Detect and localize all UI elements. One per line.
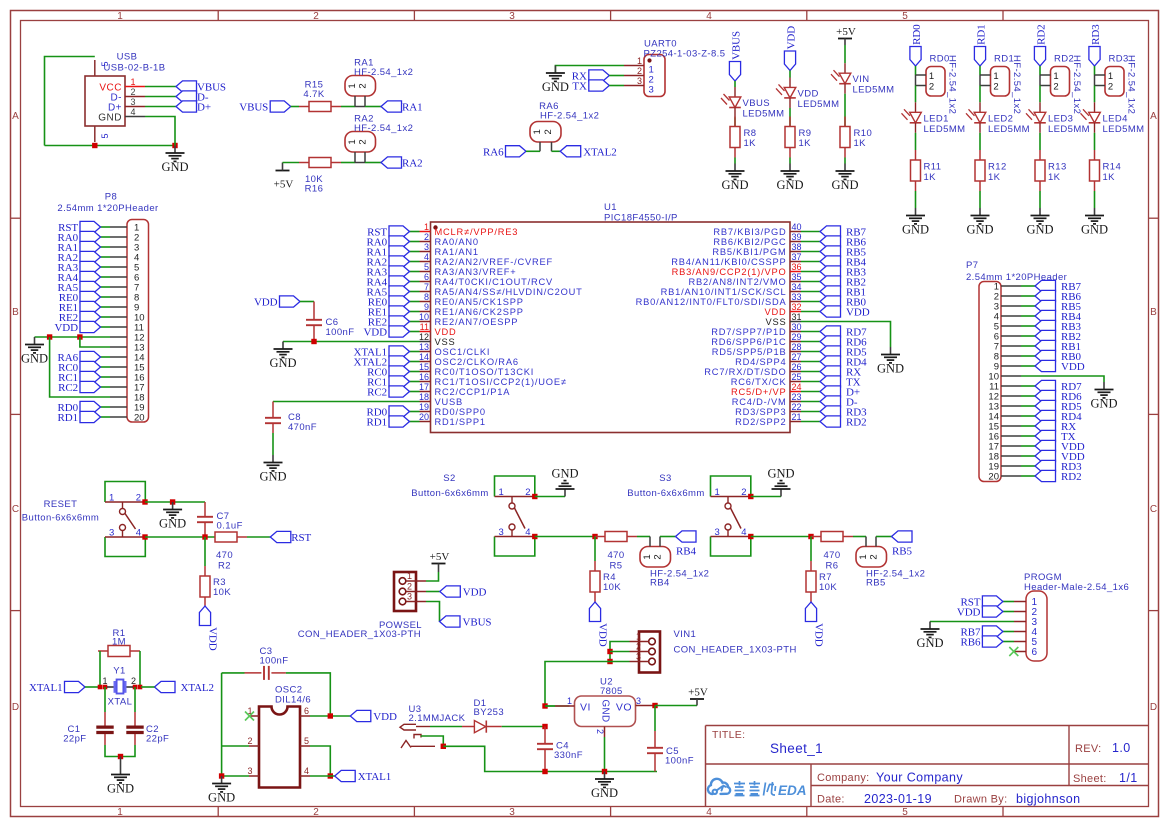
net flag VDD	[805, 602, 824, 647]
U1 right pins	[636, 222, 802, 427]
net flag RD4	[1035, 410, 1082, 423]
net flag RE1	[368, 306, 410, 319]
wire	[101, 246, 111, 248]
svg-text:RD2: RD2	[1035, 24, 1047, 44]
switch S2 Button-6x6x6mm	[495, 476, 535, 556]
svg-text:RA5/AN4/SS≠/HLVDIN/C2OUT: RA5/AN4/SS≠/HLVDIN/C2OUT	[435, 287, 583, 297]
svg-text:RB4: RB4	[676, 546, 696, 558]
resistor R13	[1035, 150, 1045, 191]
svg-text:LED5MM: LED5MM	[1103, 124, 1145, 135]
svg-text:22pF: 22pF	[146, 734, 169, 745]
net flag XTAL1	[335, 770, 391, 783]
svg-text:MCLR≠/VPP/RE3: MCLR≠/VPP/RE3	[435, 227, 519, 237]
wire	[101, 236, 111, 238]
svg-text:D: D	[1150, 702, 1157, 713]
svg-text:39: 39	[792, 232, 802, 242]
connector P8	[127, 220, 149, 423]
ground	[721, 164, 748, 193]
net flag VDD	[1035, 450, 1085, 463]
svg-text:HF-2.54_1x2: HF-2.54_1x2	[1011, 55, 1022, 114]
svg-text:VDD: VDD	[785, 26, 797, 50]
wire	[1003, 601, 1014, 603]
wire	[915, 191, 917, 208]
capacitor C8	[265, 402, 281, 434]
label R2	[216, 550, 233, 572]
svg-text:RB2/AN8/INT2/VMO: RB2/AN8/INT2/VMO	[688, 277, 786, 287]
svg-text:HF-2.54_1x2: HF-2.54_1x2	[947, 55, 958, 114]
svg-text:LED5MM: LED5MM	[1048, 124, 1090, 135]
wire	[410, 291, 420, 293]
svg-text:RA0/AN0: RA0/AN0	[435, 237, 479, 247]
wire	[101, 316, 111, 318]
svg-text:1: 1	[715, 487, 720, 498]
connector UART0	[644, 55, 665, 97]
label RESET	[22, 499, 99, 524]
net flag VDD	[589, 602, 608, 647]
label C7	[217, 511, 243, 532]
wire	[751, 496, 781, 498]
svg-text:2: 2	[407, 582, 412, 592]
svg-text:10: 10	[419, 312, 429, 322]
wire	[844, 94, 846, 127]
resistor R7	[806, 561, 816, 602]
wire	[734, 158, 736, 164]
junction	[98, 685, 103, 690]
wire	[222, 775, 249, 777]
wire	[1021, 465, 1035, 467]
svg-text:2: 2	[993, 82, 998, 93]
svg-text:VUSB: VUSB	[435, 397, 464, 407]
svg-text:LED5MM: LED5MM	[743, 109, 785, 120]
resistor R6	[811, 532, 853, 542]
label VIN LED5MM	[853, 74, 895, 96]
net flag VDD	[254, 296, 300, 309]
svg-text:100nF: 100nF	[665, 756, 694, 767]
resistor R2	[215, 532, 247, 542]
svg-text:GND: GND	[600, 700, 611, 723]
svg-text:1M: 1M	[112, 637, 126, 648]
svg-text:VDD: VDD	[1061, 361, 1085, 373]
header RD3 HF-2.54	[1095, 67, 1125, 97]
label C6	[326, 317, 355, 338]
wire	[654, 706, 656, 732]
wire	[426, 602, 440, 622]
svg-text:RC6/TX/CK: RC6/TX/CK	[731, 377, 787, 387]
junction	[118, 754, 123, 759]
wire	[1021, 376, 1104, 382]
svg-text:3: 3	[407, 592, 412, 602]
svg-text:2: 2	[741, 487, 746, 498]
capacitor C3	[245, 666, 286, 680]
led LED2 LED5MM	[966, 102, 986, 133]
wire	[1094, 191, 1096, 208]
svg-text:20: 20	[419, 412, 429, 422]
svg-text:HF-2.54_1x2: HF-2.54_1x2	[540, 111, 599, 122]
wire	[526, 150, 540, 152]
junction	[142, 534, 147, 539]
resistor R15	[299, 102, 341, 112]
svg-text:14: 14	[419, 352, 429, 362]
net flag RX	[1035, 420, 1076, 433]
net flag RA1	[367, 246, 410, 259]
header RD1 HF-2.54	[980, 67, 1010, 97]
svg-text:37: 37	[792, 252, 802, 262]
svg-text:LED5MM: LED5MM	[924, 124, 966, 135]
wire	[221, 673, 223, 776]
label U2	[600, 677, 623, 698]
svg-text:A: A	[12, 111, 19, 122]
net flag RE2	[368, 316, 410, 329]
svg-text:VBUS: VBUS	[743, 98, 770, 109]
wire	[410, 371, 420, 373]
svg-text:EDA: EDA	[778, 783, 807, 798]
label POWSEL	[298, 620, 422, 640]
svg-text:100nF: 100nF	[326, 327, 355, 338]
connector P7	[979, 282, 1001, 482]
junction	[592, 534, 597, 539]
svg-text:LED1: LED1	[924, 114, 949, 125]
USB pins	[95, 60, 145, 142]
wire	[535, 536, 595, 538]
net flag RD1	[974, 24, 987, 66]
ground	[269, 342, 296, 371]
wire	[915, 133, 917, 150]
svg-text:470: 470	[216, 550, 233, 561]
label S3	[627, 473, 704, 499]
svg-text:VIN1: VIN1	[674, 629, 697, 640]
wire	[104, 687, 106, 712]
wire	[1003, 611, 1014, 613]
svg-text:R14: R14	[1103, 162, 1122, 173]
svg-text:HF-2.54_1x2: HF-2.54_1x2	[354, 123, 413, 134]
svg-text:CON_HEADER_1X03-PTH: CON_HEADER_1X03-PTH	[674, 645, 797, 656]
svg-text:PIC18F4550-I/P: PIC18F4550-I/P	[604, 213, 678, 224]
svg-text:HF-2.54_1x2: HF-2.54_1x2	[354, 67, 413, 78]
net flag RC2	[367, 386, 409, 399]
svg-text:R12: R12	[988, 162, 1007, 173]
resistor R4	[590, 561, 600, 602]
svg-text:1: 1	[347, 139, 358, 144]
net flag RC0	[58, 361, 100, 374]
wire	[283, 341, 420, 343]
svg-text:XTAL2: XTAL2	[181, 682, 214, 694]
svg-text:3: 3	[499, 527, 504, 538]
net flag RC0	[367, 366, 409, 379]
svg-text:3: 3	[715, 527, 720, 538]
capacitor C6	[306, 302, 322, 342]
net flag VDD	[1035, 440, 1085, 453]
net flag RA3	[367, 266, 410, 279]
svg-text:RB7/KBI3/PGD: RB7/KBI3/PGD	[713, 227, 786, 237]
svg-text:10K: 10K	[603, 582, 621, 593]
capacitor C4	[537, 727, 553, 772]
wire	[1021, 415, 1035, 417]
label U3	[409, 704, 466, 724]
wire	[930, 621, 1014, 623]
wire	[545, 705, 555, 707]
svg-text:VSS: VSS	[765, 317, 786, 327]
wire	[101, 326, 111, 328]
net flag RA0	[367, 236, 410, 249]
svg-text:REV:: REV:	[1075, 743, 1101, 755]
wire	[1021, 425, 1035, 427]
net flag RD7	[820, 326, 867, 339]
svg-text:R6: R6	[826, 561, 839, 572]
net flag RX	[572, 70, 610, 83]
junction	[138, 685, 143, 690]
svg-text:XTAL2: XTAL2	[583, 146, 616, 158]
svg-text:VIN: VIN	[853, 74, 870, 85]
net flag RD1	[367, 416, 410, 429]
svg-text:RD1: RD1	[975, 24, 987, 44]
svg-text:RE1/AN6/CK2SPP: RE1/AN6/CK2SPP	[435, 307, 524, 317]
wire	[1003, 641, 1014, 643]
svg-text:RC4/D-/VM: RC4/D-/VM	[732, 397, 787, 407]
junction	[170, 499, 175, 504]
svg-text:GND: GND	[161, 160, 188, 174]
junction	[607, 649, 612, 654]
svg-text:15: 15	[419, 362, 429, 372]
net flag RB5	[820, 246, 866, 259]
net flag RB4	[820, 256, 866, 269]
junction	[542, 769, 547, 774]
svg-text:10K: 10K	[213, 587, 231, 598]
wire	[45, 145, 176, 147]
label R14	[1103, 162, 1122, 184]
wire	[801, 381, 820, 383]
label OSC2	[275, 685, 311, 706]
svg-text:3: 3	[509, 11, 515, 22]
label C1	[63, 724, 86, 745]
ground	[208, 776, 235, 805]
junction	[808, 534, 813, 539]
svg-text:S2: S2	[443, 473, 455, 484]
wire	[410, 351, 420, 353]
net flag XTAL2	[354, 356, 410, 369]
wire	[365, 106, 381, 108]
ground	[259, 455, 286, 484]
junction	[542, 703, 547, 708]
net flag RA1	[58, 241, 101, 254]
wire	[801, 421, 820, 423]
ground	[877, 347, 904, 376]
svg-text:2: 2	[358, 83, 369, 88]
wire	[145, 86, 176, 88]
wire	[410, 321, 420, 323]
svg-text:GND: GND	[269, 356, 296, 370]
svg-text:GND: GND	[1090, 397, 1117, 411]
wire	[1021, 285, 1035, 287]
net flag RC1	[367, 376, 409, 389]
wire	[283, 162, 300, 164]
svg-text:RB5/KBI1/PGM: RB5/KBI1/PGM	[712, 247, 786, 257]
svg-text:19: 19	[419, 402, 429, 412]
svg-text:34: 34	[792, 282, 802, 292]
net flag VBUS	[440, 616, 492, 629]
wire	[655, 705, 697, 707]
svg-text:11: 11	[420, 322, 429, 332]
svg-text:RD2: RD2	[1061, 471, 1081, 483]
label C2	[146, 724, 169, 745]
svg-text:20: 20	[134, 413, 145, 424]
junction	[172, 143, 177, 148]
svg-text:2: 2	[136, 493, 141, 504]
wire	[801, 351, 820, 353]
wire	[365, 162, 381, 164]
svg-text:2: 2	[424, 232, 429, 242]
svg-text:CON_HEADER_1X03-PTH: CON_HEADER_1X03-PTH	[298, 629, 421, 640]
net flag RB0	[820, 296, 866, 309]
svg-text:1K: 1K	[988, 172, 1001, 183]
junction	[103, 685, 108, 690]
label VIN1	[674, 629, 797, 656]
svg-text:U1: U1	[604, 202, 617, 213]
wire	[801, 281, 820, 283]
svg-text:Y1: Y1	[113, 666, 125, 677]
svg-text:bigjohnson: bigjohnson	[1016, 792, 1080, 806]
net flag VBUS	[729, 31, 742, 81]
ground	[767, 467, 794, 497]
svg-text:4: 4	[525, 527, 530, 538]
label USB	[104, 52, 166, 74]
wire	[801, 401, 820, 403]
svg-text:Button-6x6x6mm: Button-6x6x6mm	[22, 513, 99, 524]
svg-text:1: 1	[407, 571, 412, 581]
wire	[801, 371, 820, 373]
svg-text:2.1MMJACK: 2.1MMJACK	[409, 713, 466, 724]
header RB4	[640, 537, 671, 568]
wire	[145, 501, 205, 503]
svg-text:1: 1	[567, 696, 572, 706]
led VDD LED5MM	[776, 78, 796, 109]
svg-text:Your Company: Your Company	[876, 771, 963, 785]
wire	[801, 391, 820, 393]
svg-text:2: 2	[636, 642, 641, 652]
svg-text:Drawn By:: Drawn By:	[954, 794, 1007, 806]
wire	[801, 271, 820, 273]
svg-text:RA1/AN1: RA1/AN1	[435, 247, 479, 257]
svg-text:Date:: Date:	[817, 794, 845, 806]
svg-text:RA2/AN2/VREF-/CVREF: RA2/AN2/VREF-/CVREF	[435, 257, 554, 267]
svg-text:470: 470	[607, 550, 624, 561]
svg-text:VO: VO	[616, 702, 632, 714]
UART0 pins	[624, 56, 654, 95]
svg-text:RST: RST	[291, 532, 311, 544]
label R16	[305, 174, 324, 195]
svg-text:6: 6	[424, 272, 429, 282]
svg-text:6: 6	[1032, 647, 1038, 658]
ground	[551, 467, 578, 497]
wire	[801, 411, 820, 413]
svg-text:B: B	[1150, 307, 1157, 318]
net flag VDD	[54, 321, 100, 334]
wire	[552, 150, 561, 152]
ground	[21, 337, 48, 366]
svg-text:VBUS: VBUS	[239, 102, 268, 114]
svg-text:3: 3	[649, 84, 654, 95]
svg-text:100nF: 100nF	[260, 656, 289, 667]
wire	[1021, 435, 1035, 437]
net flag RB5	[1035, 300, 1081, 313]
svg-text:RD2/SPP2: RD2/SPP2	[735, 417, 786, 427]
wire	[426, 572, 439, 581]
svg-text:RC0/T1OSO/T13CKI: RC0/T1OSO/T13CKI	[435, 367, 535, 377]
wire	[915, 66, 917, 75]
junction	[219, 773, 224, 778]
wire	[222, 745, 249, 747]
wire	[801, 251, 820, 253]
svg-text:3: 3	[637, 76, 642, 86]
svg-text:BY253: BY253	[474, 707, 505, 718]
svg-text:2: 2	[247, 736, 252, 746]
svg-text:5: 5	[304, 736, 309, 746]
wire	[101, 356, 111, 358]
wire	[410, 231, 420, 233]
wire	[545, 705, 570, 707]
svg-text:TITLE:: TITLE:	[712, 729, 745, 741]
net flag RB6	[961, 636, 1003, 649]
svg-text:2: 2	[1108, 82, 1113, 93]
wire	[876, 536, 892, 538]
wire	[1039, 133, 1041, 150]
wire	[594, 537, 596, 562]
wire	[751, 536, 811, 538]
logo JLCEDA	[708, 779, 807, 798]
svg-text:RE0/AN5/CK1SPP: RE0/AN5/CK1SPP	[435, 297, 524, 307]
wire	[410, 331, 420, 333]
resistor R1	[98, 646, 140, 657]
svg-text:RD1: RD1	[58, 412, 78, 424]
net flag D-	[820, 396, 858, 409]
switch RESET Button-6x6x6mm	[105, 482, 145, 557]
svg-text:2: 2	[653, 554, 664, 559]
svg-text:RD1: RD1	[367, 417, 387, 429]
svg-text:GND: GND	[902, 223, 929, 237]
wire	[1021, 295, 1035, 297]
svg-text:+5V: +5V	[688, 687, 708, 699]
wire	[310, 775, 335, 777]
svg-text:GND: GND	[966, 223, 993, 237]
capacitor C1	[96, 712, 113, 745]
svg-text:A: A	[1150, 111, 1157, 122]
svg-text:2: 2	[929, 82, 934, 93]
svg-text:XTAL1: XTAL1	[358, 771, 391, 783]
wire	[801, 261, 820, 263]
header RA6	[530, 122, 561, 152]
svg-text:VDD: VDD	[463, 587, 487, 599]
power +5V	[688, 687, 708, 706]
svg-text:RB4/AN11/KBI0/CSSPP: RB4/AN11/KBI0/CSSPP	[671, 257, 786, 267]
svg-text:RA6: RA6	[483, 146, 504, 158]
svg-text:VDD: VDD	[812, 623, 824, 647]
wire	[610, 651, 630, 653]
svg-text:4: 4	[706, 807, 712, 818]
net flag RST	[961, 596, 1003, 609]
wire	[101, 366, 111, 368]
net flag RD3	[820, 406, 867, 419]
svg-text:RC1/T1OSI/CCP2(1)/UOE≠: RC1/T1OSI/CCP2(1)/UOE≠	[435, 377, 567, 387]
svg-text:RA1: RA1	[402, 102, 422, 114]
header RA2	[345, 132, 376, 163]
resistor R8	[730, 117, 740, 158]
svg-text:RD3/SPP3: RD3/SPP3	[735, 407, 786, 417]
wire	[45, 57, 95, 146]
connector PROGM	[1014, 591, 1047, 661]
junction	[142, 499, 147, 504]
svg-text:38: 38	[792, 242, 802, 252]
net flag XTAL1	[354, 346, 410, 359]
svg-text:LED2: LED2	[988, 114, 1013, 125]
